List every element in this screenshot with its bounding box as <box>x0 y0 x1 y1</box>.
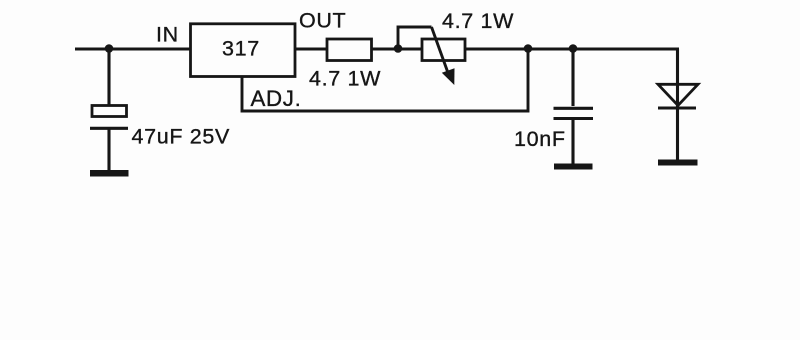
wire R2 wiper diagonal <box>432 27 450 77</box>
svg-text:ADJ.: ADJ. <box>251 86 302 111</box>
ground below C2 <box>554 164 593 170</box>
regulator U1 317 box <box>191 24 296 77</box>
svg-text:OUT: OUT <box>299 9 346 33</box>
wire C1 to ground <box>107 129 110 170</box>
resistor R1 <box>327 39 372 61</box>
node B junction <box>524 44 533 53</box>
node A junction <box>394 44 403 53</box>
svg-text:10nF: 10nF <box>514 127 566 151</box>
wire node C to C2 <box>571 49 574 106</box>
wire input horizontal <box>75 47 190 50</box>
capacitor C1 top plate <box>92 106 127 117</box>
ground below C1 <box>90 170 129 177</box>
arrowhead of R2 wiper <box>442 68 455 85</box>
svg-text:317: 317 <box>222 37 260 61</box>
capacitor C1 bottom plate <box>90 127 128 130</box>
diode D1 triangle <box>658 84 698 105</box>
node C junction <box>569 44 578 53</box>
wire C2 to ground <box>571 119 574 164</box>
node input junction <box>105 44 114 53</box>
wire corner down through diode D1 to ground <box>676 49 679 160</box>
svg-text:47uF 25V: 47uF 25V <box>132 125 230 149</box>
svg-text:4.7 1W: 4.7 1W <box>442 9 514 33</box>
svg-text:IN: IN <box>156 23 179 47</box>
ground below D1 <box>658 160 698 166</box>
diode D1 cathode bar <box>658 106 696 109</box>
wire ADJ pin return <box>242 49 528 111</box>
capacitor C2 bottom plate <box>554 117 594 120</box>
wire junction to C1 <box>107 49 110 105</box>
rheostat R2 body <box>422 39 465 61</box>
wire R2 to diode corner <box>465 47 679 50</box>
wire OUT to R1 <box>295 47 327 50</box>
wire R2 wiper loop <box>398 27 432 49</box>
wire R1 to node A <box>371 47 422 50</box>
capacitor C2 top plate <box>554 107 594 110</box>
svg-text:4.7 1W: 4.7 1W <box>309 67 381 91</box>
